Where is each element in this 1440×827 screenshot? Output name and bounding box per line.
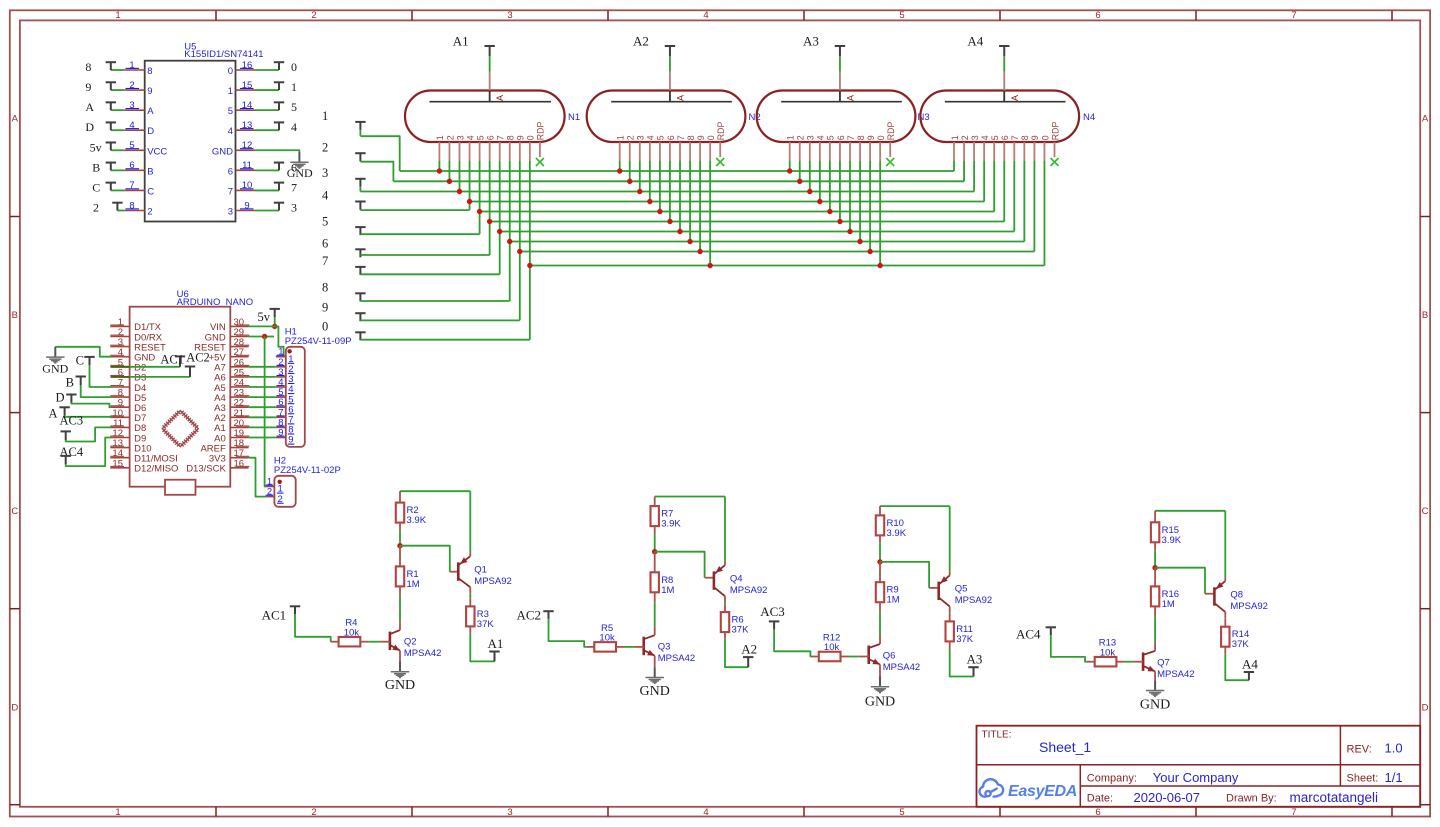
- svg-text:1: 1: [435, 135, 445, 140]
- svg-text:RDP: RDP: [536, 121, 546, 140]
- svg-text:6: 6: [1000, 135, 1010, 140]
- svg-text:D: D: [147, 126, 154, 137]
- svg-text:MPSA92: MPSA92: [1230, 601, 1268, 612]
- svg-text:2: 2: [626, 135, 636, 140]
- svg-text:Q6: Q6: [883, 651, 896, 662]
- svg-text:0: 0: [322, 320, 328, 334]
- svg-text:7: 7: [846, 135, 856, 140]
- svg-text:PZ254V-11-02P: PZ254V-11-02P: [274, 465, 341, 476]
- svg-text:4: 4: [465, 135, 475, 140]
- svg-text:4: 4: [129, 120, 134, 131]
- svg-text:Company:: Company:: [1087, 773, 1137, 785]
- svg-text:1: 1: [291, 80, 297, 94]
- svg-text:1: 1: [322, 109, 328, 123]
- svg-text:1M: 1M: [1162, 599, 1175, 610]
- svg-text:marcotatangeli: marcotatangeli: [1290, 790, 1379, 805]
- svg-text:3: 3: [129, 100, 134, 111]
- svg-text:Your Company: Your Company: [1153, 770, 1239, 785]
- svg-text:2: 2: [322, 140, 328, 154]
- svg-text:6: 6: [836, 135, 846, 140]
- svg-text:A1: A1: [453, 34, 469, 49]
- svg-text:3: 3: [322, 166, 328, 180]
- svg-text:6: 6: [1095, 10, 1100, 21]
- svg-text:GND: GND: [42, 362, 68, 376]
- svg-text:N3: N3: [918, 112, 930, 123]
- svg-text:2: 2: [311, 10, 316, 21]
- svg-text:D: D: [11, 702, 18, 713]
- svg-text:4: 4: [228, 126, 233, 137]
- svg-text:GND: GND: [640, 684, 670, 699]
- svg-text:4: 4: [646, 135, 656, 140]
- svg-text:D12/MISO: D12/MISO: [134, 464, 178, 475]
- svg-text:GND: GND: [865, 695, 895, 710]
- svg-text:4: 4: [703, 807, 708, 818]
- svg-text:37K: 37K: [477, 619, 495, 630]
- svg-text:K155ID1/SN74141: K155ID1/SN74141: [184, 49, 263, 60]
- svg-text:1: 1: [115, 807, 120, 818]
- svg-text:RDP: RDP: [886, 121, 896, 140]
- svg-text:14: 14: [242, 100, 253, 111]
- svg-text:6: 6: [129, 160, 134, 171]
- svg-text:A: A: [845, 95, 855, 101]
- svg-text:B: B: [66, 376, 74, 390]
- svg-text:3: 3: [507, 10, 512, 21]
- svg-text:1M: 1M: [407, 579, 420, 590]
- svg-text:REV:: REV:: [1347, 744, 1372, 756]
- svg-text:AC1: AC1: [160, 353, 184, 367]
- svg-text:D: D: [1422, 702, 1429, 713]
- svg-text:Q7: Q7: [1157, 657, 1170, 668]
- svg-text:Q3: Q3: [658, 642, 671, 653]
- svg-text:C: C: [92, 180, 100, 194]
- svg-text:4: 4: [816, 135, 826, 140]
- svg-text:2020-06-07: 2020-06-07: [1134, 790, 1201, 805]
- svg-text:5: 5: [990, 135, 1000, 140]
- svg-text:Sheet_1: Sheet_1: [1039, 739, 1091, 755]
- svg-text:3: 3: [455, 135, 465, 140]
- svg-text:7: 7: [1291, 807, 1296, 818]
- svg-text:6: 6: [322, 237, 328, 251]
- svg-text:7: 7: [1010, 135, 1020, 140]
- svg-text:7: 7: [228, 186, 233, 197]
- svg-text:1: 1: [228, 86, 233, 97]
- svg-text:8: 8: [147, 66, 152, 77]
- svg-text:4: 4: [703, 10, 708, 21]
- svg-text:10k: 10k: [344, 627, 360, 638]
- svg-text:1: 1: [616, 135, 626, 140]
- svg-text:PZ254V-11-09P: PZ254V-11-09P: [285, 336, 352, 347]
- svg-text:AC3: AC3: [60, 414, 84, 428]
- svg-text:3: 3: [970, 135, 980, 140]
- svg-text:1M: 1M: [887, 595, 900, 606]
- svg-text:4: 4: [291, 120, 297, 134]
- svg-text:6: 6: [1095, 807, 1100, 818]
- svg-text:2: 2: [960, 135, 970, 140]
- svg-text:RDP: RDP: [716, 121, 726, 140]
- svg-text:7: 7: [322, 254, 328, 268]
- svg-text:N2: N2: [749, 112, 761, 123]
- svg-text:A: A: [1010, 95, 1020, 101]
- svg-text:3.9K: 3.9K: [887, 528, 907, 539]
- svg-text:1/1: 1/1: [1385, 770, 1403, 785]
- svg-text:3: 3: [806, 135, 816, 140]
- svg-text:EasyEDA: EasyEDA: [1008, 783, 1077, 800]
- svg-text:8: 8: [856, 135, 866, 140]
- svg-text:16: 16: [242, 60, 253, 71]
- svg-text:A1: A1: [488, 636, 504, 651]
- svg-text:B: B: [147, 166, 153, 177]
- svg-text:10k: 10k: [599, 633, 615, 644]
- svg-text:A: A: [12, 114, 19, 125]
- svg-text:A4: A4: [1242, 657, 1258, 672]
- svg-text:B: B: [1422, 310, 1428, 321]
- svg-text:1: 1: [129, 60, 134, 71]
- svg-text:2: 2: [796, 135, 806, 140]
- svg-text:9: 9: [278, 428, 283, 439]
- svg-text:5: 5: [475, 135, 485, 140]
- svg-text:5: 5: [129, 140, 134, 151]
- svg-text:A: A: [1422, 114, 1429, 125]
- svg-text:10k: 10k: [824, 642, 840, 653]
- svg-text:MPSA42: MPSA42: [404, 648, 442, 659]
- svg-text:11: 11: [242, 160, 252, 171]
- svg-text:3.9K: 3.9K: [661, 519, 681, 530]
- svg-text:GND: GND: [212, 146, 233, 157]
- svg-text:Drawn By:: Drawn By:: [1226, 793, 1277, 805]
- svg-text:13: 13: [242, 120, 253, 131]
- svg-text:Sheet:: Sheet:: [1347, 773, 1379, 785]
- svg-text:AC2: AC2: [517, 608, 542, 623]
- svg-text:8: 8: [85, 60, 91, 74]
- svg-text:TITLE:: TITLE:: [982, 730, 1012, 741]
- svg-text:C: C: [147, 186, 154, 197]
- svg-text:VCC: VCC: [147, 146, 167, 157]
- svg-text:0: 0: [876, 135, 886, 140]
- svg-text:2: 2: [311, 807, 316, 818]
- svg-text:2: 2: [93, 200, 99, 214]
- svg-text:9: 9: [1030, 135, 1040, 140]
- svg-text:C: C: [76, 354, 84, 368]
- svg-text:3.9K: 3.9K: [407, 515, 427, 526]
- svg-text:6: 6: [228, 166, 233, 177]
- svg-text:B: B: [92, 160, 100, 174]
- svg-text:9: 9: [516, 135, 526, 140]
- svg-text:2: 2: [267, 487, 272, 498]
- svg-text:9: 9: [147, 86, 152, 97]
- svg-text:GND: GND: [1140, 698, 1170, 713]
- svg-text:A2: A2: [741, 642, 757, 657]
- svg-text:8: 8: [506, 135, 516, 140]
- svg-text:5: 5: [826, 135, 836, 140]
- svg-text:7: 7: [676, 135, 686, 140]
- svg-text:5v: 5v: [258, 310, 271, 324]
- svg-text:7: 7: [1291, 10, 1296, 21]
- svg-text:A3: A3: [803, 34, 819, 49]
- svg-text:5: 5: [899, 807, 904, 818]
- svg-text:Q8: Q8: [1230, 589, 1243, 600]
- svg-text:3: 3: [507, 807, 512, 818]
- svg-text:37K: 37K: [732, 625, 750, 636]
- svg-text:A: A: [48, 407, 57, 421]
- svg-text:1: 1: [950, 135, 960, 140]
- svg-text:5: 5: [656, 135, 666, 140]
- svg-text:MPSA42: MPSA42: [1157, 669, 1195, 680]
- svg-text:MPSA42: MPSA42: [658, 653, 696, 664]
- svg-text:AC4: AC4: [1016, 627, 1041, 642]
- svg-text:7: 7: [129, 180, 134, 191]
- svg-text:Q5: Q5: [955, 584, 968, 595]
- svg-text:Date:: Date:: [1087, 793, 1113, 805]
- svg-text:2: 2: [445, 135, 455, 140]
- svg-text:0: 0: [291, 60, 297, 74]
- svg-text:AC3: AC3: [760, 604, 785, 619]
- svg-text:15: 15: [242, 80, 253, 91]
- svg-text:5: 5: [322, 214, 328, 228]
- svg-text:37K: 37K: [1232, 639, 1250, 650]
- svg-text:2: 2: [147, 206, 152, 217]
- svg-text:6: 6: [485, 135, 495, 140]
- svg-text:A3: A3: [967, 652, 983, 667]
- svg-text:A: A: [147, 106, 154, 117]
- svg-text:4: 4: [980, 135, 990, 140]
- svg-text:8: 8: [686, 135, 696, 140]
- svg-text:10: 10: [242, 180, 253, 191]
- svg-text:9: 9: [866, 135, 876, 140]
- svg-text:7: 7: [291, 180, 297, 194]
- svg-text:0: 0: [526, 135, 536, 140]
- svg-text:MPSA92: MPSA92: [474, 576, 512, 587]
- svg-text:N1: N1: [568, 112, 580, 123]
- svg-text:GND: GND: [385, 678, 415, 693]
- svg-text:AC2: AC2: [186, 351, 210, 365]
- svg-text:A4: A4: [967, 34, 983, 49]
- svg-text:B: B: [12, 310, 18, 321]
- svg-text:4: 4: [322, 189, 329, 203]
- svg-text:5: 5: [228, 106, 233, 117]
- svg-text:Q1: Q1: [474, 564, 487, 575]
- svg-text:9: 9: [244, 200, 249, 211]
- svg-text:15: 15: [112, 458, 123, 469]
- svg-text:1.0: 1.0: [1385, 741, 1403, 756]
- svg-text:C: C: [11, 506, 18, 517]
- svg-text:A: A: [495, 95, 505, 101]
- svg-text:A: A: [85, 100, 94, 114]
- svg-text:3: 3: [291, 200, 297, 214]
- svg-text:9: 9: [696, 135, 706, 140]
- svg-text:0: 0: [1040, 135, 1050, 140]
- svg-text:D: D: [55, 391, 64, 405]
- svg-text:Q2: Q2: [404, 637, 417, 648]
- svg-text:MPSA92: MPSA92: [730, 585, 768, 596]
- svg-text:Q4: Q4: [730, 573, 743, 584]
- svg-text:16: 16: [234, 458, 245, 469]
- svg-text:6: 6: [666, 135, 676, 140]
- svg-text:MPSA92: MPSA92: [955, 595, 993, 606]
- svg-text:5: 5: [899, 10, 904, 21]
- svg-text:8: 8: [129, 200, 134, 211]
- svg-text:5: 5: [291, 100, 297, 114]
- svg-text:N4: N4: [1083, 112, 1095, 123]
- svg-text:2: 2: [129, 80, 134, 91]
- svg-text:3: 3: [228, 206, 233, 217]
- svg-text:7: 7: [496, 135, 506, 140]
- svg-text:3: 3: [636, 135, 646, 140]
- svg-text:12: 12: [242, 140, 253, 151]
- svg-text:1: 1: [115, 10, 120, 21]
- svg-text:A2: A2: [633, 34, 649, 49]
- svg-text:3.9K: 3.9K: [1162, 535, 1182, 546]
- svg-text:5v: 5v: [90, 140, 102, 154]
- svg-text:D: D: [85, 120, 94, 134]
- svg-text:0: 0: [706, 135, 716, 140]
- svg-text:A: A: [675, 95, 685, 101]
- svg-text:10k: 10k: [1100, 647, 1116, 658]
- svg-text:8: 8: [1020, 135, 1030, 140]
- svg-text:AC1: AC1: [262, 608, 287, 623]
- svg-text:8: 8: [322, 281, 328, 295]
- svg-text:GND: GND: [287, 166, 313, 180]
- svg-text:RDP: RDP: [1050, 121, 1060, 140]
- svg-text:9: 9: [85, 80, 91, 94]
- svg-text:1M: 1M: [661, 585, 674, 596]
- svg-text:9: 9: [322, 300, 328, 314]
- svg-text:MPSA42: MPSA42: [883, 662, 921, 673]
- svg-text:C: C: [1422, 506, 1429, 517]
- svg-text:0: 0: [228, 66, 233, 77]
- svg-text:D13/SCK: D13/SCK: [186, 464, 226, 475]
- svg-text:37K: 37K: [956, 634, 974, 645]
- svg-text:1: 1: [786, 135, 796, 140]
